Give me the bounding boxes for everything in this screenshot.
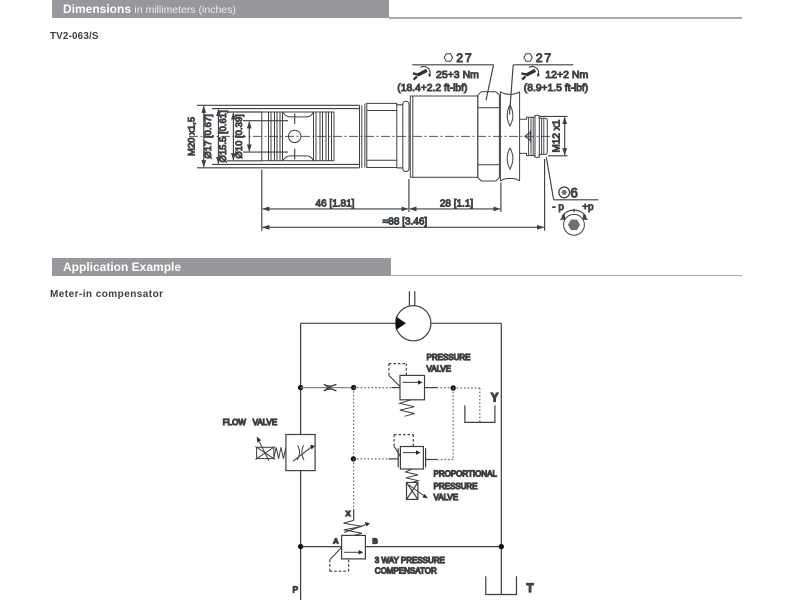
- svg-text:+p: +p: [582, 202, 594, 213]
- svg-text:12+2 Nm: 12+2 Nm: [545, 69, 588, 81]
- section header: Application Example: [52, 258, 391, 276]
- torque text 1: [397, 69, 479, 94]
- hex nut 2 (rotated): [500, 92, 519, 181]
- svg-text:M20 x1,5: M20 x1,5: [187, 117, 198, 156]
- tank T: [486, 576, 517, 594]
- svg-text:Ø10 [0.39]: Ø10 [0.39]: [234, 114, 245, 158]
- svg-text:VALVE: VALVE: [427, 364, 452, 373]
- main cylinder body: [410, 96, 478, 177]
- wrench icon 1: [413, 66, 432, 79]
- svg-text:T: T: [527, 583, 534, 595]
- mid groove rings: [314, 112, 335, 161]
- section header: Dimensions: [52, 0, 389, 18]
- node: left bottom junction: [298, 544, 303, 549]
- svg-text:25+3 Nm: 25+3 Nm: [436, 69, 479, 81]
- svg-text:- p: - p: [552, 202, 564, 213]
- seal washer: [397, 101, 409, 171]
- dashed to Y node: [437, 387, 453, 389]
- adjustment knob with hex socket: [560, 209, 588, 236]
- V3 pilot dashed loop: [330, 547, 349, 571]
- tank Y: [465, 405, 495, 422]
- svg-text:X: X: [346, 509, 351, 518]
- svg-text:27: 27: [456, 51, 473, 65]
- FV spring: [274, 447, 286, 458]
- pump U1: [396, 291, 431, 341]
- V1 outlet stub: [425, 387, 437, 389]
- flow valve FV: [286, 435, 315, 471]
- pressure valve V1: [400, 375, 425, 399]
- centerline: [189, 135, 551, 137]
- svg-text:28 [1.1]: 28 [1.1]: [440, 198, 474, 209]
- schematic title: [50, 289, 163, 300]
- svg-text:COMPENSATOR: COMPENSATOR: [375, 567, 437, 576]
- dimension 88 overall: [263, 159, 545, 231]
- torque leader shelf 2: [510, 65, 574, 115]
- node: Y junction: [451, 385, 456, 390]
- dimension 46: [262, 170, 409, 231]
- internal hex socket (side view): [525, 130, 531, 142]
- thread to hex neck: [360, 103, 365, 167]
- svg-text:P: P: [293, 585, 299, 595]
- wire: A side: [301, 546, 342, 548]
- dimension D10: [234, 114, 288, 158]
- hex nut 1: [478, 92, 500, 181]
- dimension D17: [203, 109, 360, 165]
- M12 connector end: [520, 115, 548, 158]
- svg-text:PRESSURE: PRESSURE: [434, 482, 478, 491]
- 3-way compensator V3: [342, 535, 366, 559]
- V1 pilot dashed box: [389, 364, 406, 387]
- wire: pump top line: [301, 322, 396, 324]
- svg-text:PRESSURE: PRESSURE: [427, 353, 471, 362]
- dashed to prop valve: [353, 458, 388, 460]
- dimension 28: [410, 183, 501, 213]
- V1 spring: [400, 400, 415, 417]
- svg-text:6: 6: [570, 185, 578, 200]
- torque text 2: [524, 69, 589, 94]
- V2 solenoid: [407, 483, 429, 500]
- svg-text:FLOW VALVE: FLOW VALVE: [223, 418, 277, 427]
- adjustment detail leader: [546, 157, 598, 200]
- V2 spring: [406, 469, 419, 483]
- -p +p labels: [552, 202, 594, 213]
- model label TV2-063/S: [50, 31, 99, 42]
- svg-text:Y: Y: [491, 392, 499, 404]
- svg-text:(8.9+1.5 ft-lbf): (8.9+1.5 ft-lbf): [524, 83, 588, 94]
- pilot dashed vertical mid: [353, 388, 355, 459]
- node: right bottom junction: [499, 544, 504, 549]
- svg-text:A: A: [333, 537, 339, 546]
- node: prop valve junction: [351, 456, 356, 461]
- torque leader shelf 1: [412, 65, 493, 101]
- svg-text:≈88 [3.46]: ≈88 [3.46]: [383, 217, 428, 228]
- hex key 6 symbol: [559, 185, 578, 200]
- svg-text:Ø15.5 [0.61]: Ø15.5 [0.61]: [218, 110, 229, 162]
- node: pilot junction: [351, 385, 356, 390]
- wrench icon 2: [521, 66, 540, 79]
- svg-text:M12 x1: M12 x1: [551, 119, 562, 152]
- hex key symbol 27 (2): [524, 51, 553, 65]
- proportional pressure valve V2: [398, 447, 425, 470]
- dashed to Y tank: [453, 388, 480, 422]
- svg-text:46 [1.81]: 46 [1.81]: [316, 198, 355, 209]
- hex key symbol 27 (1): [444, 51, 473, 65]
- svg-text:3 WAY PRESSURE: 3 WAY PRESSURE: [375, 556, 445, 565]
- cross-hole: [283, 112, 314, 161]
- FV solenoid: [255, 437, 275, 461]
- pilot dashed X line: [353, 459, 355, 521]
- svg-text:VALVE: VALVE: [434, 493, 459, 502]
- pilot dashed line to pressure valve: [354, 387, 392, 389]
- svg-text:(18.4+2.2 ft-lbf): (18.4+2.2 ft-lbf): [397, 83, 467, 94]
- nose groove rings: [269, 112, 283, 161]
- wire: right vertical T line: [500, 323, 502, 594]
- pilot dashed down to proportional valve: [426, 388, 454, 460]
- wire: branch with plug: [301, 387, 354, 389]
- valve body hex: [367, 103, 397, 167]
- valve cartridge nose: [262, 112, 334, 161]
- svg-text:PROPORTIONAL: PROPORTIONAL: [434, 470, 498, 479]
- svg-text:B: B: [372, 537, 378, 546]
- compensator spring: [344, 520, 370, 535]
- dimension M20x1.5: [187, 105, 360, 168]
- plugged port X symbol: [324, 384, 337, 391]
- dimension M12x1: [540, 116, 568, 155]
- wire: left vertical P line: [300, 323, 302, 600]
- svg-text:Ø17 [0.67]: Ø17 [0.67]: [203, 114, 214, 158]
- svg-text:27: 27: [536, 51, 553, 65]
- V2 pilot dashed box: [394, 435, 413, 457]
- wire: pump to right corner: [431, 322, 502, 324]
- wire: B side to tank: [365, 546, 501, 548]
- node: P branch junction: [298, 385, 303, 390]
- dimension D15.5: [218, 110, 262, 162]
